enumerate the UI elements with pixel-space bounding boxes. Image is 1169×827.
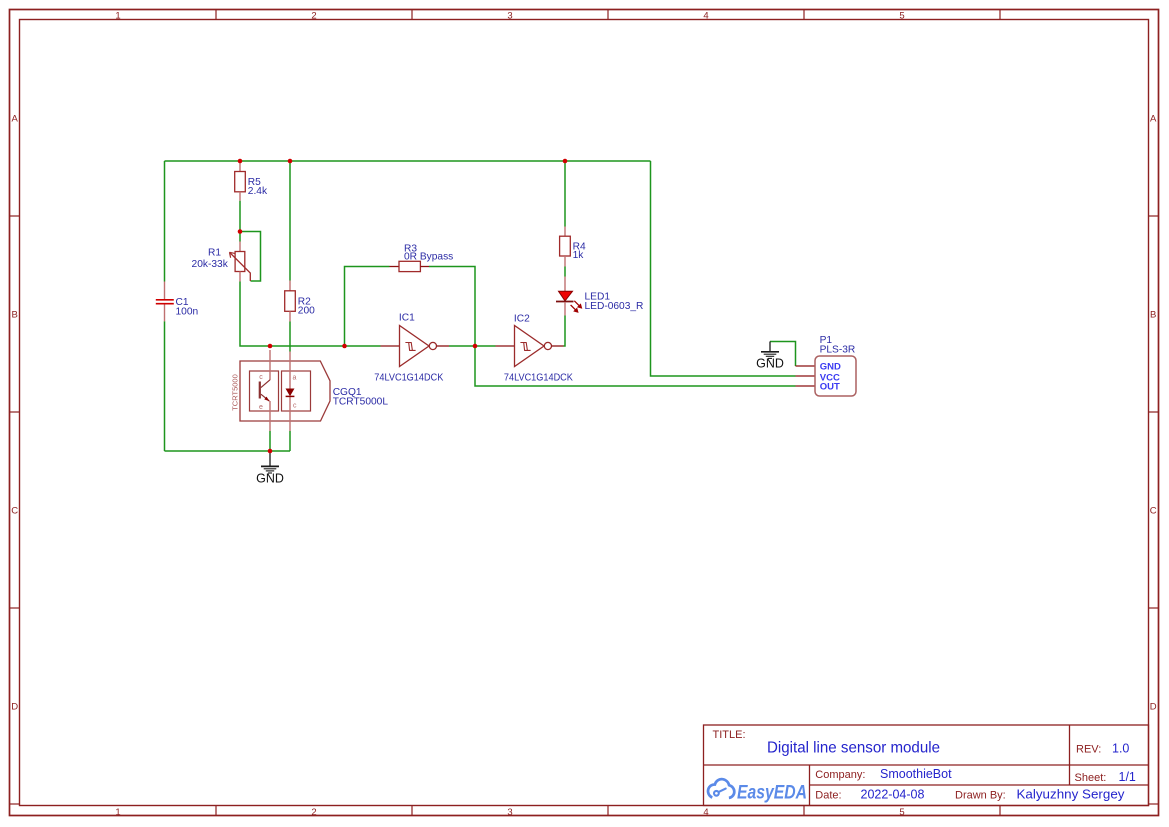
svg-text:Date:: Date: — [815, 790, 841, 802]
inverter IC1 — [374, 313, 449, 384]
wire node to IC1 input — [270, 345, 381, 347]
svg-text:EasyEDA: EasyEDA — [737, 781, 807, 803]
wire IC1 output to IC2 input — [449, 345, 496, 347]
svg-text:REV:: REV: — [1076, 744, 1101, 756]
svg-text:100n: 100n — [176, 307, 199, 318]
ground GND right — [756, 342, 784, 371]
svg-text:1/1: 1/1 — [1119, 770, 1136, 784]
svg-text:200: 200 — [298, 306, 315, 317]
wire R3 right loop — [429, 267, 475, 347]
capacitor C1 — [156, 282, 198, 322]
svg-text:D: D — [1150, 702, 1157, 713]
svg-text:c: c — [293, 403, 297, 410]
svg-text:a: a — [293, 374, 297, 381]
svg-text:1: 1 — [115, 11, 120, 22]
svg-text:Digital line sensor module: Digital line sensor module — [767, 740, 940, 757]
svg-text:c: c — [259, 374, 263, 381]
wire R4 top — [564, 161, 566, 227]
svg-text:2022-04-08: 2022-04-08 — [861, 788, 925, 802]
svg-text:IC1: IC1 — [399, 313, 415, 324]
svg-text:2.4k: 2.4k — [248, 186, 268, 197]
inverter IC2 — [496, 313, 574, 383]
svg-text:OUT: OUT — [820, 382, 840, 393]
svg-text:R1: R1 — [208, 248, 221, 259]
svg-text:1.0: 1.0 — [1112, 741, 1129, 755]
svg-text:1k: 1k — [573, 250, 585, 261]
svg-text:TCRT5000: TCRT5000 — [231, 374, 240, 411]
wire TCRT emitter to ground run — [269, 431, 271, 451]
wire P1 GND pin to ground symbol — [770, 342, 796, 367]
svg-text:74LVC1G14DCK: 74LVC1G14DCK — [504, 373, 573, 384]
wire left rail upper — [164, 161, 166, 282]
svg-text:3: 3 — [507, 11, 512, 22]
ground GND left — [256, 451, 284, 486]
resistor R3 — [390, 244, 454, 272]
svg-text:PLS-3R: PLS-3R — [820, 344, 856, 355]
wire TCRT cathode to ground run — [289, 431, 291, 451]
svg-text:Company:: Company: — [815, 769, 865, 781]
wire bottom ground run — [165, 450, 291, 452]
wire R1 bottom to node — [240, 282, 270, 347]
potentiometer R1 — [192, 242, 251, 282]
wire R5 to R1 — [239, 201, 241, 242]
resistor R5 — [235, 161, 268, 201]
TITLEBLOCK — [704, 725, 1149, 806]
junction nodes — [238, 159, 568, 454]
svg-text:LED-0603_R: LED-0603_R — [585, 301, 644, 312]
svg-text:4: 4 — [703, 807, 708, 818]
svg-text:4: 4 — [703, 11, 708, 22]
svg-text:B: B — [1150, 310, 1156, 321]
connector P1 — [796, 335, 857, 396]
wire IC2 output to LED cathode — [564, 316, 566, 347]
svg-text:1: 1 — [115, 807, 120, 818]
svg-text:0R Bypass: 0R Bypass — [404, 251, 453, 262]
resistor R4 — [560, 227, 586, 267]
svg-text:TCRT5000L: TCRT5000L — [333, 396, 389, 407]
wire VCC to P1 — [651, 161, 796, 376]
svg-text:5: 5 — [899, 11, 904, 22]
wire R4 to LED anode — [564, 267, 566, 277]
wire R2 bottom to TCRT anode — [289, 322, 291, 352]
svg-text:2: 2 — [311, 11, 316, 22]
LED LED1 — [556, 277, 643, 316]
svg-text:GND: GND — [256, 472, 284, 486]
wire R1 wiper bypass loop — [240, 232, 261, 282]
wire left rail lower — [164, 321, 166, 451]
svg-text:IC2: IC2 — [514, 313, 530, 324]
svg-text:A: A — [1150, 114, 1157, 125]
wire R3 left loop — [345, 267, 390, 347]
svg-text:C: C — [11, 506, 18, 517]
svg-text:B: B — [12, 310, 18, 321]
svg-text:D: D — [11, 702, 18, 713]
svg-text:Sheet:: Sheet: — [1075, 772, 1107, 784]
svg-text:TITLE:: TITLE: — [713, 729, 746, 741]
resistor R2 — [285, 281, 315, 322]
optocoupler CGQ1 TCRT5000 — [231, 350, 389, 431]
EasyEDA logo — [708, 779, 734, 798]
svg-text:SmoothieBot: SmoothieBot — [880, 767, 952, 781]
svg-text:GND: GND — [820, 362, 841, 373]
svg-text:C: C — [1150, 506, 1157, 517]
wire top VCC rail — [165, 160, 651, 162]
svg-text:20k-33k: 20k-33k — [192, 259, 229, 270]
svg-text:Kalyuzhny Sergey: Kalyuzhny Sergey — [1017, 788, 1126, 802]
wire OUT to P1 — [475, 346, 796, 386]
svg-text:3: 3 — [507, 807, 512, 818]
svg-text:Drawn By:: Drawn By: — [955, 790, 1006, 802]
svg-text:2: 2 — [311, 807, 316, 818]
svg-text:e: e — [259, 404, 263, 411]
svg-text:5: 5 — [899, 807, 904, 818]
svg-text:A: A — [12, 114, 19, 125]
svg-text:GND: GND — [756, 356, 784, 370]
CIRCUIT — [156, 159, 856, 486]
wire R2 top — [289, 161, 291, 281]
svg-text:74LVC1G14DCK: 74LVC1G14DCK — [374, 372, 443, 383]
